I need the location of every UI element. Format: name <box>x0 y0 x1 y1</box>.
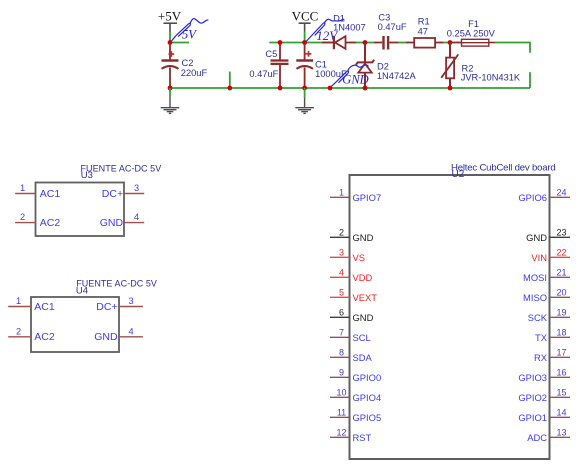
node R2 bottom junction <box>448 86 453 91</box>
label R1 value <box>418 16 430 36</box>
ground symbol under VCC <box>295 88 314 113</box>
wire bottom rail <box>170 87 530 89</box>
svg-text:FUENTE AC-DC 5V: FUENTE AC-DC 5V <box>76 279 157 289</box>
node C1 bottom junction <box>302 86 307 91</box>
svg-text:3: 3 <box>339 248 344 258</box>
wire top rail <box>269 42 334 44</box>
node C5 top junction <box>278 40 283 45</box>
svg-text:U2: U2 <box>452 169 465 180</box>
svg-text:19: 19 <box>556 308 566 318</box>
node D2 top junction <box>363 40 368 45</box>
svg-text:AC2: AC2 <box>34 331 55 343</box>
pin 2 U2 GND <box>330 228 374 243</box>
svg-text:RX: RX <box>534 352 548 363</box>
pin 3 U3 DC+ <box>102 183 144 200</box>
pin 20 U2 MISO <box>523 288 570 303</box>
svg-text:JVR-10N431K: JVR-10N431K <box>461 72 521 82</box>
svg-text:1: 1 <box>339 188 344 198</box>
svg-text:220uF: 220uF <box>181 68 208 78</box>
svg-text:0.47uF: 0.47uF <box>378 22 407 32</box>
wire right top corner <box>495 43 530 53</box>
svg-text:DC+: DC+ <box>102 188 123 200</box>
pin 17 U2 RX <box>534 348 570 363</box>
wire VCC stem <box>304 32 306 43</box>
annotation pen 12V <box>306 19 344 42</box>
svg-text:4: 4 <box>339 268 344 278</box>
label F1 value <box>447 19 496 38</box>
fuse F1 <box>450 39 495 46</box>
IC U3 FUENTE AC-DC 5V <box>36 163 162 236</box>
node stub junction <box>227 86 232 91</box>
label C1 value <box>315 59 347 79</box>
svg-text:SDA: SDA <box>353 352 373 363</box>
node VCC junction <box>302 40 307 45</box>
label C5 value <box>249 49 278 79</box>
svg-text:GPIO2: GPIO2 <box>518 392 547 403</box>
IC U2 Heltec CubCell dev board <box>350 162 556 459</box>
pin 1 U3 AC1 <box>15 183 60 200</box>
svg-text:AC2: AC2 <box>40 217 61 229</box>
pin 3 U4 DC+ <box>96 296 143 313</box>
svg-text:VS: VS <box>353 252 366 263</box>
svg-text:GND: GND <box>526 232 547 243</box>
svg-text:0.47uF: 0.47uF <box>249 69 278 79</box>
svg-text:+5V: +5V <box>158 9 182 24</box>
node F1 junction <box>448 40 453 45</box>
svg-text:47: 47 <box>418 26 428 36</box>
svg-text:VIN: VIN <box>531 252 547 263</box>
svg-text:GND: GND <box>353 312 374 323</box>
label D1 value <box>333 13 366 32</box>
svg-text:7: 7 <box>339 328 344 338</box>
pin 9 U2 GPIO0 <box>330 368 381 383</box>
varistor R2 <box>441 43 458 89</box>
svg-text:20: 20 <box>556 288 566 298</box>
svg-text:AC1: AC1 <box>40 188 61 200</box>
svg-text:16: 16 <box>556 368 566 378</box>
IC U4 FUENTE AC-DC 5V <box>31 279 157 353</box>
svg-text:3: 3 <box>128 296 133 306</box>
pin 1 U2 GPIO7 <box>330 188 381 203</box>
annotation pen 5V <box>171 19 209 42</box>
pin 15 U2 GPIO2 <box>518 388 570 403</box>
svg-text:4: 4 <box>128 326 133 336</box>
pin 10 U2 GPIO4 <box>330 388 381 403</box>
svg-text:6: 6 <box>339 308 344 318</box>
svg-text:C1: C1 <box>315 59 327 69</box>
svg-text:18: 18 <box>556 328 566 338</box>
svg-text:22: 22 <box>556 248 566 258</box>
svg-text:9: 9 <box>339 368 344 378</box>
annotation pen GND <box>331 65 369 87</box>
wire 5V stub <box>170 42 189 44</box>
svg-text:GPIO4: GPIO4 <box>353 392 382 403</box>
resistor R1 <box>406 38 444 48</box>
svg-text:VEXT: VEXT <box>353 292 378 303</box>
svg-text:SCL: SCL <box>353 332 371 343</box>
svg-text:8: 8 <box>339 348 344 358</box>
pin 22 U2 VIN <box>531 248 570 263</box>
power symbol +5V <box>158 9 182 32</box>
svg-text:5V: 5V <box>182 28 197 42</box>
svg-text:2: 2 <box>20 212 25 222</box>
pin 7 U2 SCL <box>330 328 371 343</box>
svg-text:5: 5 <box>339 288 344 298</box>
svg-text:12: 12 <box>336 428 346 438</box>
svg-text:17: 17 <box>556 348 566 358</box>
capacitor C5 <box>271 43 289 89</box>
svg-text:1N4742A: 1N4742A <box>377 71 417 81</box>
svg-text:24: 24 <box>556 188 566 198</box>
svg-text:14: 14 <box>556 408 566 418</box>
capacitor C2 <box>162 43 179 89</box>
svg-text:0.25A 250V: 0.25A 250V <box>447 28 496 38</box>
pin 3 U2 VS <box>330 248 365 263</box>
svg-text:C3: C3 <box>378 12 390 22</box>
svg-text:15: 15 <box>556 388 566 398</box>
pin 18 U2 TX <box>535 328 570 343</box>
label D2 value <box>377 62 417 82</box>
power symbol VCC <box>292 9 319 32</box>
wire D1 to junction <box>356 42 374 44</box>
svg-text:1: 1 <box>20 183 25 193</box>
svg-text:GPIO5: GPIO5 <box>353 412 382 423</box>
ground symbol left <box>161 88 180 113</box>
wire C3 to R1 <box>399 42 406 44</box>
svg-text:GND: GND <box>353 232 374 243</box>
svg-text:TX: TX <box>535 332 548 343</box>
svg-text:1N4007: 1N4007 <box>333 23 366 33</box>
pin 4 U4 GND <box>94 326 143 343</box>
label C3 value <box>378 12 407 32</box>
wire stub on bottom rail <box>229 72 231 89</box>
pin 16 U2 GPIO3 <box>518 368 570 383</box>
svg-text:GND: GND <box>94 331 118 343</box>
node C5 bottom junction <box>278 86 283 91</box>
diode D1 <box>322 36 356 49</box>
pin 6 U2 GND <box>330 308 374 323</box>
svg-text:C2: C2 <box>182 58 194 68</box>
svg-text:RST: RST <box>353 432 372 443</box>
svg-text:23: 23 <box>556 228 566 238</box>
svg-text:21: 21 <box>556 268 566 278</box>
svg-text:SCK: SCK <box>528 312 548 323</box>
svg-text:VCC: VCC <box>292 9 319 24</box>
pin 12 U2 RST <box>330 428 372 443</box>
node GND pen junction <box>328 86 333 91</box>
pin 4 U3 GND <box>100 212 144 229</box>
pin 21 U2 MOSI <box>523 268 570 283</box>
pin 4 U2 VDD <box>330 268 373 283</box>
svg-text:DC+: DC+ <box>96 301 117 313</box>
svg-text:1: 1 <box>16 296 21 306</box>
node D2 bottom junction <box>363 86 368 91</box>
svg-text:2: 2 <box>339 228 344 238</box>
label R2 value <box>461 64 521 83</box>
svg-text:MISO: MISO <box>523 292 547 303</box>
pin 24 U2 GPIO6 <box>518 188 570 203</box>
pin 23 U2 GND <box>526 228 570 243</box>
pin 2 U4 AC2 <box>8 326 55 343</box>
svg-text:Heltec CubCell dev board: Heltec CubCell dev board <box>451 162 556 173</box>
svg-text:GPIO7: GPIO7 <box>353 192 382 203</box>
svg-text:GND: GND <box>342 73 368 87</box>
svg-text:11: 11 <box>337 408 346 418</box>
pin 8 U2 SDA <box>330 348 373 363</box>
svg-text:R1: R1 <box>418 16 430 26</box>
capacitor C3 <box>374 36 399 50</box>
pin 19 U2 SCK <box>528 308 570 323</box>
svg-text:VDD: VDD <box>353 272 373 283</box>
pin 2 U3 AC2 <box>15 212 60 229</box>
svg-text:U4: U4 <box>76 285 88 296</box>
wire R1 to junction <box>444 42 462 44</box>
svg-text:U3: U3 <box>81 170 93 181</box>
wire right bottom corner <box>529 72 531 88</box>
wire +5V stem <box>169 32 171 43</box>
svg-text:13: 13 <box>556 428 566 438</box>
svg-text:GPIO1: GPIO1 <box>518 412 547 423</box>
svg-text:3: 3 <box>134 183 139 193</box>
svg-text:MOSI: MOSI <box>523 272 547 283</box>
svg-text:10: 10 <box>336 388 346 398</box>
pin 11 U2 GPIO5 <box>330 408 381 423</box>
pin 13 U2 ADC <box>527 428 570 443</box>
zener diode D2 <box>356 43 374 89</box>
node 5V junction <box>168 40 173 45</box>
svg-text:C5: C5 <box>265 49 277 59</box>
label C2 value <box>181 58 208 78</box>
svg-text:ADC: ADC <box>527 432 547 443</box>
svg-text:D2: D2 <box>377 62 389 72</box>
svg-text:4: 4 <box>134 212 139 222</box>
pin 1 U4 AC1 <box>8 296 55 313</box>
svg-text:GND: GND <box>100 217 124 229</box>
pin 5 U2 VEXT <box>330 288 377 303</box>
capacitor C1 <box>296 43 313 89</box>
svg-text:2: 2 <box>16 326 21 336</box>
svg-text:GPIO3: GPIO3 <box>518 372 547 383</box>
node C2 bottom junction <box>168 86 173 91</box>
pin 14 U2 GPIO1 <box>518 408 570 423</box>
svg-text:GPIO0: GPIO0 <box>353 372 382 383</box>
svg-text:AC1: AC1 <box>34 301 55 313</box>
svg-text:GPIO6: GPIO6 <box>518 192 547 203</box>
